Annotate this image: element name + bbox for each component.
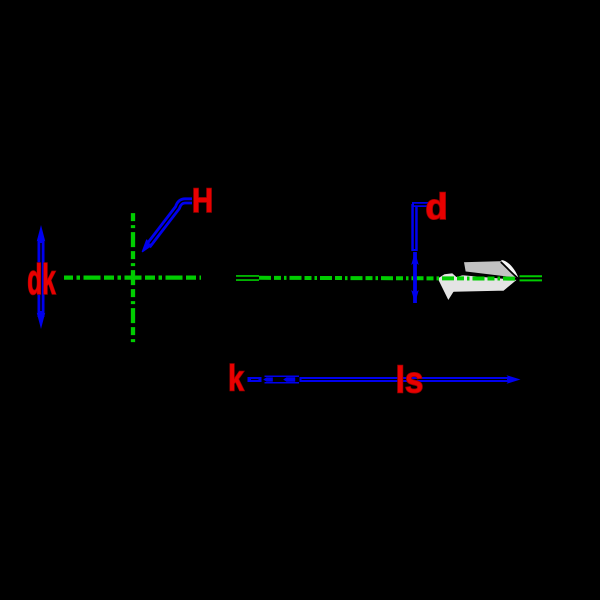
svg-text:dk: dk [27, 256, 56, 304]
label dk [27, 256, 56, 304]
axis doubled thin lines left end of right segment [236, 275, 259, 277]
axis centerline right segment [259, 276, 518, 281]
svg-text:H: H [192, 181, 213, 220]
svg-text:k: k [228, 357, 245, 398]
label d [425, 186, 447, 227]
drill bit tip body [437, 272, 520, 302]
label ls [396, 360, 424, 401]
bottom dimension line k / ls [248, 375, 521, 384]
label k [228, 357, 245, 398]
drill bit tip facet [463, 260, 519, 279]
drill bit highlight crescent [501, 260, 519, 279]
dk dimension arrow (vertical double arrow) [38, 227, 45, 327]
axis centerline left segment [64, 275, 201, 279]
svg-text:ls: ls [396, 360, 424, 401]
d dimension leader and arrows [411, 204, 431, 303]
H leader arrow [143, 201, 193, 252]
label H [192, 181, 213, 220]
axis doubled thin lines right of drill tip [520, 275, 543, 277]
vertical centerline at drill shoulder [131, 212, 135, 344]
svg-text:d: d [425, 186, 447, 227]
